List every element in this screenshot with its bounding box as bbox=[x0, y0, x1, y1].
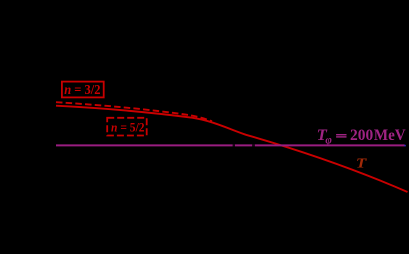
svg-text:T: T bbox=[356, 156, 368, 171]
box n=3/2 solid bbox=[62, 82, 104, 98]
curve T solid (n = 3/2) bbox=[56, 106, 408, 192]
equals bar top bbox=[336, 134, 346, 135]
equals bar bottom bbox=[336, 136, 346, 137]
svg-text:200: 200 bbox=[350, 127, 373, 144]
horizontal line T_phi bbox=[56, 144, 405, 146]
svg-text:φ: φ bbox=[325, 132, 332, 146]
gap 1 in purple line bbox=[233, 144, 235, 147]
svg-text:n = 3/2: n = 3/2 bbox=[64, 82, 101, 97]
svg-text:n = 5/2: n = 5/2 bbox=[111, 120, 145, 135]
gap 2 in purple line bbox=[252, 144, 255, 147]
svg-text:MeV: MeV bbox=[374, 127, 407, 144]
curve dashed (n = 5/2) bbox=[56, 102, 212, 121]
blue dot at end of purple line bbox=[404, 145, 406, 147]
box n=5/2 dashed bbox=[107, 118, 147, 136]
